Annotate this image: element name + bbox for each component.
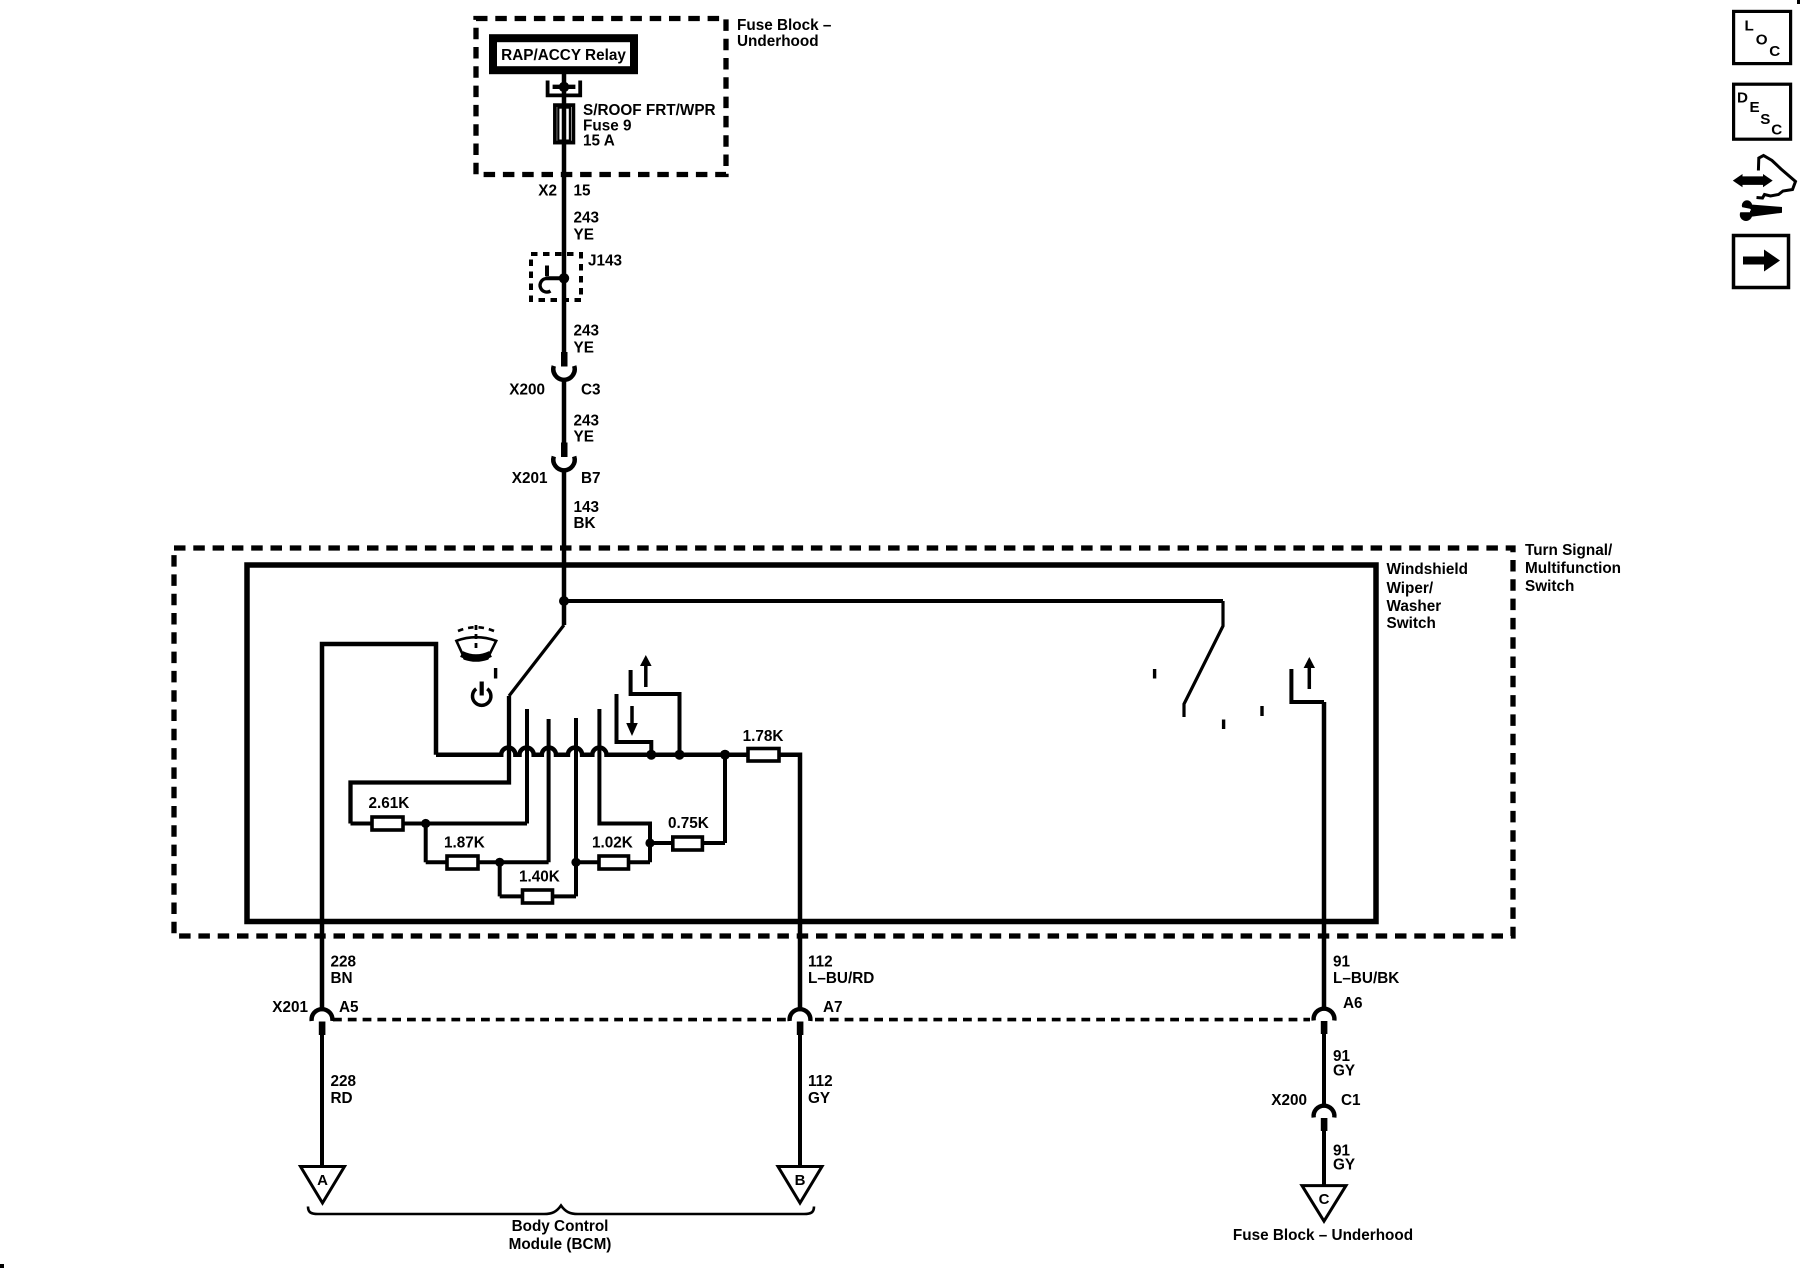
svg-text:Switch: Switch bbox=[1525, 578, 1574, 595]
arrow up (left group) bbox=[640, 655, 652, 687]
svg-text:X2: X2 bbox=[538, 183, 557, 200]
svg-text:Wiper/: Wiper/ bbox=[1387, 580, 1434, 597]
labels X200 C1 bbox=[1271, 1092, 1361, 1109]
relay socket clip bbox=[548, 81, 581, 96]
connector A5 bbox=[312, 1009, 333, 1035]
svg-text:YE: YE bbox=[574, 429, 594, 446]
svg-text:RAP/ACCY Relay: RAP/ACCY Relay bbox=[501, 47, 626, 64]
resistor 2.61K bbox=[369, 795, 410, 830]
svg-text:B: B bbox=[795, 1172, 806, 1189]
wire: washer output 91 bbox=[1322, 702, 1327, 1009]
triangle C bbox=[1302, 1186, 1346, 1222]
svg-text:15 A: 15 A bbox=[583, 133, 615, 150]
svg-text:A6: A6 bbox=[1343, 995, 1363, 1012]
wire: ladder row A bbox=[351, 822, 528, 826]
icon arrow box bbox=[1734, 236, 1789, 288]
svg-text:Windshield: Windshield bbox=[1387, 561, 1468, 578]
svg-text:91: 91 bbox=[1333, 954, 1351, 971]
icon schematic nav (double arrow + wrench) bbox=[1733, 156, 1796, 222]
svg-text:1.87K: 1.87K bbox=[444, 835, 485, 852]
svg-text:143: 143 bbox=[574, 499, 600, 516]
svg-text:1.40K: 1.40K bbox=[519, 869, 560, 886]
contact tick 2 bbox=[1222, 720, 1225, 730]
wire: 228 BN label bbox=[331, 954, 357, 988]
svg-text:Washer: Washer bbox=[1387, 598, 1442, 615]
wire: A7 to triangle B bbox=[798, 1035, 802, 1167]
svg-text:112: 112 bbox=[808, 1073, 833, 1090]
fuse F9 S/ROOF FRT/WPR bbox=[555, 105, 574, 143]
windshield wiper/washer switch solid box bbox=[247, 565, 1376, 922]
svg-text:1.02K: 1.02K bbox=[592, 835, 633, 852]
resistor 1.78K bbox=[743, 728, 784, 761]
wire: C1 to triangle C bbox=[1322, 1131, 1326, 1186]
triangle A bbox=[301, 1167, 345, 1204]
svg-text:J143: J143 bbox=[588, 253, 622, 270]
wire: relay to X201 B7 (vertical feed) bbox=[562, 74, 567, 366]
svg-text:228: 228 bbox=[331, 954, 357, 971]
svg-text:Fuse Block – Underhood: Fuse Block – Underhood bbox=[1233, 1227, 1413, 1244]
svg-text:Module (BCM): Module (BCM) bbox=[509, 1236, 612, 1253]
washer lever bracket (up) bbox=[631, 670, 680, 755]
connector row X201 dotted line bbox=[333, 1018, 1310, 1022]
svg-text:0.75K: 0.75K bbox=[668, 815, 709, 832]
svg-text:Fuse Block –: Fuse Block – bbox=[737, 17, 832, 34]
label: Windshield Wiper/Washer Switch bbox=[1387, 561, 1468, 632]
resistor 0.75K bbox=[668, 815, 709, 850]
svg-text:C: C bbox=[1771, 122, 1782, 139]
svg-text:GY: GY bbox=[1333, 1063, 1355, 1080]
label 112 GY bbox=[808, 1073, 833, 1107]
svg-text:112: 112 bbox=[808, 954, 833, 971]
wire: ladder row C bbox=[500, 862, 576, 896]
wire: 112 L-BU/RD label bbox=[808, 954, 874, 988]
tap 4 bbox=[599, 709, 650, 862]
wire: B7 into switch bbox=[562, 470, 567, 602]
label 91 GY (2) bbox=[1333, 1143, 1355, 1174]
label: fuse text bbox=[583, 102, 716, 150]
input branch to BCM (228 BN riser) bbox=[322, 644, 436, 1009]
svg-text:L–BU/BK: L–BU/BK bbox=[1333, 970, 1399, 987]
svg-text:A7: A7 bbox=[823, 999, 843, 1016]
node: ladder junction dots bbox=[421, 819, 430, 828]
svg-text:D: D bbox=[1737, 89, 1748, 106]
svg-text:O: O bbox=[1756, 31, 1768, 48]
svg-text:A: A bbox=[317, 1172, 328, 1189]
node: feed junction bbox=[559, 596, 569, 606]
wire label 243 YE (3) bbox=[574, 413, 600, 446]
icon LOC box bbox=[1734, 11, 1791, 63]
svg-text:Multifunction: Multifunction bbox=[1525, 560, 1621, 577]
svg-text:BN: BN bbox=[331, 970, 353, 987]
svg-text:1.78K: 1.78K bbox=[743, 728, 784, 745]
svg-text:15: 15 bbox=[574, 183, 592, 200]
labels X201 B7 bbox=[512, 470, 601, 487]
connector C1 bbox=[1314, 1106, 1335, 1131]
svg-text:YE: YE bbox=[574, 227, 594, 244]
svg-text:X201: X201 bbox=[272, 999, 308, 1016]
labels X200 C3 bbox=[509, 382, 600, 399]
wire: A6 to C1 bbox=[1322, 1034, 1326, 1108]
wire: 91 L-BU/BK label bbox=[1333, 954, 1399, 988]
svg-text:Body Control: Body Control bbox=[512, 1218, 609, 1235]
svg-text:228: 228 bbox=[331, 1073, 357, 1090]
page mark top right bbox=[1797, 0, 1800, 4]
svg-text:Underhood: Underhood bbox=[737, 33, 819, 50]
wire label 243 YE (2) bbox=[574, 323, 600, 357]
wire: 0.75K row bbox=[650, 755, 725, 843]
svg-text:X200: X200 bbox=[509, 382, 545, 399]
resistive coil with taps bbox=[436, 748, 800, 1009]
svg-text:S/ROOF FRT/WPR: S/ROOF FRT/WPR bbox=[583, 102, 716, 119]
svg-text:243: 243 bbox=[574, 323, 600, 340]
svg-text:C: C bbox=[1319, 1191, 1330, 1208]
wiper speed switch blade bbox=[351, 601, 565, 824]
washer bracket (right) bbox=[1291, 669, 1324, 702]
page mark bottom left bbox=[0, 1264, 4, 1268]
svg-text:S: S bbox=[1760, 111, 1770, 128]
label 91 GY (1) bbox=[1333, 1048, 1355, 1080]
arrow up (right group) bbox=[1304, 657, 1315, 689]
brace BCM bbox=[308, 1206, 814, 1215]
wire: ladder row B bbox=[426, 824, 549, 863]
svg-text:B7: B7 bbox=[581, 470, 601, 487]
tap 1 bbox=[525, 709, 529, 824]
svg-text:BK: BK bbox=[574, 515, 596, 532]
connector X201 B7 (pin + cup) bbox=[553, 443, 574, 471]
svg-text:YE: YE bbox=[574, 340, 594, 357]
label: Body Control Module (BCM) bbox=[509, 1218, 612, 1253]
fuse block underhood dashed box bbox=[476, 19, 726, 175]
contact tick 3 bbox=[1260, 706, 1263, 716]
wire label 143 BK bbox=[574, 499, 600, 532]
triangle B bbox=[778, 1167, 822, 1204]
label: Turn Signal/Multifunction Switch bbox=[1525, 542, 1621, 595]
resistor 1.40K bbox=[519, 869, 560, 904]
svg-text:GY: GY bbox=[1333, 1157, 1355, 1174]
connector A6 bbox=[1314, 1009, 1335, 1034]
wire: feed across to washer switch bbox=[564, 599, 1223, 603]
svg-text:RD: RD bbox=[331, 1090, 353, 1107]
svg-text:L–BU/RD: L–BU/RD bbox=[808, 970, 874, 987]
washer lever bracket (down) bbox=[617, 694, 652, 755]
svg-text:C3: C3 bbox=[581, 382, 601, 399]
wiper icon bbox=[456, 625, 496, 661]
wire: C3 to B7 bbox=[562, 379, 567, 458]
svg-text:A5: A5 bbox=[339, 999, 359, 1016]
icon DESC box bbox=[1734, 84, 1791, 139]
tap 2 bbox=[547, 719, 551, 862]
svg-text:243: 243 bbox=[574, 210, 600, 227]
svg-text:2.61K: 2.61K bbox=[369, 795, 410, 812]
wire label 243 YE (1) bbox=[574, 210, 600, 244]
svg-text:C: C bbox=[1769, 43, 1780, 60]
svg-text:X200: X200 bbox=[1271, 1092, 1307, 1109]
svg-text:E: E bbox=[1750, 99, 1760, 116]
connector X200 C3 (pin + cup) bbox=[553, 352, 574, 380]
svg-text:GY: GY bbox=[808, 1090, 830, 1107]
contact tick 1 bbox=[1153, 669, 1156, 679]
resistor 1.87K bbox=[444, 835, 485, 870]
resistor 1.02K bbox=[592, 835, 633, 870]
svg-text:L: L bbox=[1745, 18, 1754, 35]
pin label X2 | 15 bbox=[538, 183, 591, 200]
svg-text:X201: X201 bbox=[512, 470, 548, 487]
splice J143 dashed box bbox=[531, 254, 581, 300]
relay RAP/ACCY box bbox=[493, 38, 634, 70]
svg-text:Turn Signal/: Turn Signal/ bbox=[1525, 542, 1613, 559]
splice J143 symbol bbox=[540, 266, 569, 293]
connector A7 bbox=[790, 1009, 811, 1035]
svg-text:243: 243 bbox=[574, 413, 600, 430]
labels X201 A5 bbox=[272, 999, 359, 1016]
node: bracket junctions on coil line bbox=[646, 750, 656, 760]
tap 3 bbox=[574, 718, 578, 896]
arrow down (left group) bbox=[626, 706, 638, 736]
label 228 RD bbox=[331, 1073, 357, 1107]
wire: A5 to triangle A bbox=[320, 1035, 324, 1167]
label: Fuse Block - Underhood (top) bbox=[737, 17, 832, 50]
turn signal / multifunction switch dashed box bbox=[174, 548, 1513, 936]
wire: 1.02K row bbox=[576, 860, 650, 864]
svg-text:C1: C1 bbox=[1341, 1092, 1361, 1109]
power icon bbox=[472, 668, 495, 705]
svg-text:Switch: Switch bbox=[1387, 615, 1436, 632]
washer switch blade (right) bbox=[1184, 601, 1223, 717]
